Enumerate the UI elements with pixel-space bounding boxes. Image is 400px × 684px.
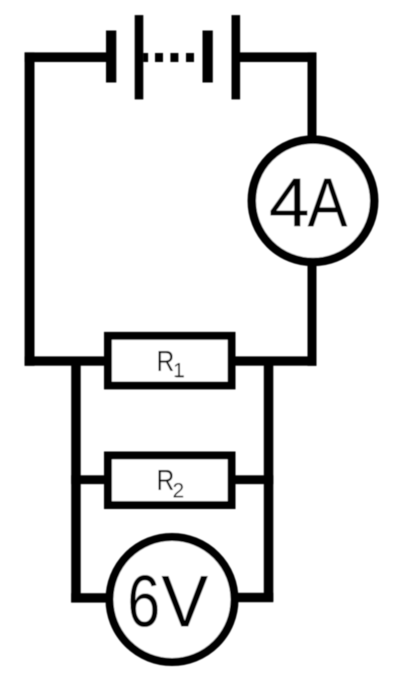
svg-text:6: 6	[127, 560, 160, 642]
battery dashed link stub	[143, 53, 148, 62]
wire voltmeter right stub	[234, 593, 273, 602]
wire right vertical upper	[308, 52, 317, 140]
battery dashed link dot 1	[155, 53, 163, 62]
subscript 1 foot serif	[176, 375, 184, 377]
svg-text:A: A	[308, 163, 349, 241]
wire inner-right vertical	[264, 357, 274, 601]
battery cell 1 negative plate	[106, 31, 116, 83]
resistor R1 box	[108, 336, 232, 386]
wire right vertical lower	[308, 262, 317, 366]
wire R2 right stub	[232, 475, 273, 484]
svg-text:R: R	[157, 346, 175, 378]
svg-text:2: 2	[173, 479, 185, 502]
svg-text:4: 4	[269, 163, 310, 241]
battery dashed link dot 3	[186, 53, 194, 62]
wire left vertical	[25, 52, 35, 365]
svg-text:V: V	[161, 560, 208, 642]
svg-text:1: 1	[173, 360, 184, 382]
wire top-left horizontal	[25, 52, 107, 62]
ammeter A1 circle	[252, 140, 374, 262]
wire voltmeter left stub	[71, 593, 109, 602]
wire top-right horizontal	[240, 52, 316, 62]
voltmeter V1 circle	[110, 537, 235, 662]
battery cell 2 negative plate	[203, 31, 213, 83]
battery cell 1 positive plate	[135, 15, 144, 99]
resistor R2 box	[108, 455, 232, 505]
battery cell 2 positive plate	[232, 15, 241, 99]
wire R2 left stub	[71, 475, 107, 484]
wire inner-left vertical	[71, 357, 81, 603]
wire middle horizontal at R1 level	[25, 356, 317, 365]
battery dashed link dot 2	[170, 53, 178, 62]
